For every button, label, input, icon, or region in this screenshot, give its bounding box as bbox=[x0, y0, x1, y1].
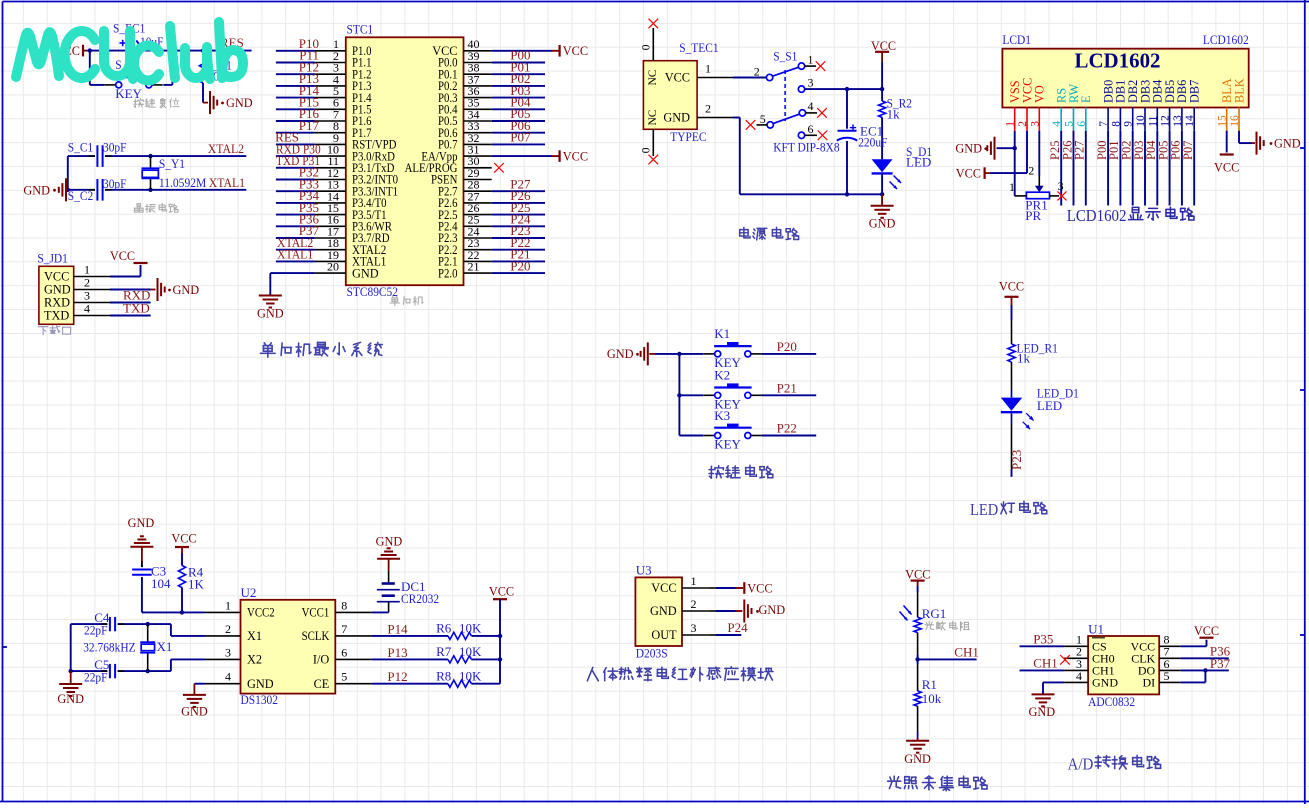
svg-text:CH1: CH1 bbox=[1033, 656, 1058, 671]
svg-text:DB7: DB7 bbox=[1188, 80, 1202, 103]
power port VCC (LCD) bbox=[956, 166, 990, 180]
wire + net label P14 (MCU pin 5) bbox=[276, 83, 320, 98]
svg-text:GND: GND bbox=[1092, 676, 1118, 690]
wire + net label XTAL1 (MCU pin 19) bbox=[276, 247, 315, 262]
wire + net label P07 (LCD) bbox=[1181, 131, 1195, 206]
svg-text:VCC: VCC bbox=[905, 567, 930, 581]
wire + net label P11 (MCU pin 2) bbox=[276, 48, 319, 63]
svg-text:CR2032: CR2032 bbox=[401, 591, 439, 606]
wire + net label P01 (MCU pin 38) bbox=[492, 59, 545, 74]
power port VCC (reset circuit) bbox=[55, 44, 88, 58]
switch S_S1 KFT DIP-8X8 bbox=[754, 49, 840, 155]
capacitor C4 22pF bbox=[84, 610, 124, 638]
junction bbox=[677, 352, 681, 398]
wire + net label P22 bbox=[762, 421, 817, 436]
wire + net label P32 (MCU pin 12) bbox=[276, 165, 319, 180]
capacitor S_C2 30pF bbox=[68, 176, 127, 203]
svg-text:15: 15 bbox=[1217, 115, 1229, 127]
wire + net label P04 (MCU pin 35) bbox=[492, 95, 545, 110]
wire + net label P22 (MCU pin 23) bbox=[492, 235, 545, 250]
wire U2 pin1 VCC2 net bbox=[142, 611, 205, 613]
svg-text:CH1: CH1 bbox=[954, 644, 979, 659]
resistor R7 10K bbox=[436, 644, 482, 663]
power port VCC (light sensor) bbox=[905, 567, 930, 586]
svg-text:GND: GND bbox=[23, 183, 50, 197]
wire + net label P16 (MCU pin 7) bbox=[276, 106, 320, 121]
overline on CS pin name (U1) bbox=[1092, 637, 1105, 639]
wire + power port VCC (LCD BLA pin15) bbox=[1214, 131, 1239, 175]
wire + ground (U1 pin4) bbox=[1028, 682, 1064, 719]
svg-text:U2: U2 bbox=[241, 585, 257, 600]
wire LCD pin1 VSS + junction bbox=[997, 131, 1017, 196]
wire key rail bbox=[655, 354, 704, 436]
svg-text:P07: P07 bbox=[510, 130, 531, 145]
svg-text:8: 8 bbox=[1110, 121, 1122, 127]
wire + net label RES (MCU pin 9) bbox=[275, 130, 314, 145]
svg-text:VCC: VCC bbox=[956, 166, 981, 180]
wire + power port VCC (MCU pin 31 EA) bbox=[492, 150, 588, 164]
svg-text:3: 3 bbox=[225, 645, 231, 659]
svg-text:GND: GND bbox=[663, 111, 690, 125]
svg-text:5: 5 bbox=[760, 112, 766, 126]
capacitor C5 22pF bbox=[84, 657, 124, 685]
svg-text:GND: GND bbox=[607, 347, 634, 361]
wire + net label P24 (MCU pin 25) bbox=[492, 212, 545, 227]
MCU pins and pin numbers bbox=[315, 37, 492, 280]
ground (reset circuit) bbox=[203, 91, 253, 114]
svg-text:GND: GND bbox=[376, 535, 403, 549]
junction bbox=[66, 154, 153, 192]
wire + net label P36 (MCU pin 16) bbox=[276, 212, 320, 227]
svg-text:4: 4 bbox=[808, 99, 814, 113]
wire + net label XTAL2 (MCU pin 18) bbox=[276, 235, 315, 250]
wire ground rail (power circuit) bbox=[733, 118, 882, 195]
wire R6 to VCC rail bbox=[471, 635, 500, 637]
svg-text:7: 7 bbox=[341, 622, 347, 636]
net label RES bbox=[220, 35, 244, 50]
wire + net label P37 (MCU pin 17) bbox=[276, 223, 320, 238]
svg-text:VCC2: VCC2 bbox=[247, 606, 275, 620]
caption 单片机 bbox=[390, 296, 423, 305]
svg-text:XTAL1: XTAL1 bbox=[209, 175, 245, 190]
wire resistor to LED bbox=[881, 117, 883, 159]
svg-text:RG1: RG1 bbox=[922, 606, 947, 621]
svg-text:OUT: OUT bbox=[651, 628, 677, 642]
svg-text:11: 11 bbox=[1147, 115, 1159, 126]
caption 电源电路 bbox=[740, 227, 799, 240]
wire + net label P05 (LCD) bbox=[1156, 131, 1170, 206]
svg-text:ADC0832: ADC0832 bbox=[1088, 694, 1135, 709]
wire + net label P12 bbox=[372, 669, 448, 684]
svg-text:R7: R7 bbox=[436, 644, 452, 659]
caption LCD1602显示电路 bbox=[1067, 206, 1194, 225]
svg-text:E: E bbox=[1079, 95, 1093, 103]
svg-text:CE: CE bbox=[314, 677, 330, 691]
svg-text:TYPEC: TYPEC bbox=[670, 129, 706, 144]
wire + net label P03 (LCD) bbox=[1132, 131, 1146, 206]
wire + net label P06 (MCU pin 33) bbox=[492, 118, 545, 133]
svg-text:DI: DI bbox=[1143, 676, 1156, 690]
svg-text:16: 16 bbox=[1229, 115, 1241, 127]
wire X1 bottom net (U2 pin3) bbox=[71, 624, 205, 671]
wire + net label P24 (U3 pin3) bbox=[708, 620, 748, 635]
svg-text:GND: GND bbox=[57, 692, 84, 706]
ground (power circuit) bbox=[869, 194, 896, 230]
wire + power port VCC (U3 pin1) bbox=[708, 581, 772, 595]
svg-text:VCC: VCC bbox=[665, 71, 690, 85]
caption LED灯电路 bbox=[970, 500, 1047, 519]
svg-text:PR: PR bbox=[1025, 208, 1041, 223]
svg-text:21: 21 bbox=[468, 260, 480, 274]
wire + net label P25 (LCD) bbox=[1048, 131, 1062, 206]
wire + net label P36 (U1 pin7) bbox=[1181, 644, 1231, 659]
svg-text:S_TEC1: S_TEC1 bbox=[679, 40, 718, 55]
wire + net label P17 (MCU pin 8) bbox=[276, 118, 320, 133]
svg-text:KFT DIP-8X8: KFT DIP-8X8 bbox=[773, 140, 839, 155]
svg-text:GND: GND bbox=[650, 604, 677, 618]
ground (above C3, inverted) bbox=[128, 516, 155, 564]
svg-text:RXD: RXD bbox=[44, 296, 70, 310]
module LCD1 LCD1602 body bbox=[1002, 32, 1248, 107]
net label XTAL1 bbox=[209, 175, 245, 190]
svg-text:LED: LED bbox=[1037, 398, 1062, 413]
wire S_S1 pin3 to VCC rail bbox=[805, 88, 882, 90]
svg-text:1K: 1K bbox=[188, 577, 205, 592]
wire XTAL2 net bbox=[68, 155, 247, 157]
svg-text:4: 4 bbox=[1076, 669, 1082, 683]
wire + net label P00 (MCU pin 39) bbox=[492, 48, 545, 63]
svg-text:LCD1602: LCD1602 bbox=[1203, 32, 1249, 47]
svg-text:3: 3 bbox=[691, 621, 697, 635]
resistor R8 10K bbox=[436, 668, 482, 687]
svg-text:LCD1: LCD1 bbox=[1002, 32, 1031, 47]
wire + net label P02 (LCD) bbox=[1120, 131, 1134, 206]
svg-text:P23: P23 bbox=[1009, 450, 1024, 470]
svg-text:TXD: TXD bbox=[44, 309, 69, 323]
svg-text:5: 5 bbox=[341, 670, 347, 684]
svg-text:1: 1 bbox=[225, 598, 231, 612]
junction bbox=[88, 48, 206, 52]
svg-text:6: 6 bbox=[1076, 121, 1088, 127]
svg-text:S_S1: S_S1 bbox=[773, 49, 797, 64]
wire + net label P13 (MCU pin 4) bbox=[276, 71, 319, 86]
net label XTAL2 bbox=[208, 141, 244, 156]
svg-text:GND: GND bbox=[181, 705, 208, 719]
no-ERC mark (MCU pin 30) bbox=[494, 163, 504, 173]
wire + net label P07 (MCU pin 32) bbox=[492, 130, 545, 145]
svg-text:VCC: VCC bbox=[999, 280, 1024, 294]
svg-text:2: 2 bbox=[225, 622, 231, 636]
svg-text:3: 3 bbox=[808, 76, 814, 90]
power port VCC (R4) bbox=[171, 532, 196, 554]
wire + net label P14 bbox=[372, 621, 448, 636]
svg-text:KEY: KEY bbox=[714, 437, 741, 452]
wire + net label P20 (MCU pin 21) bbox=[492, 258, 545, 273]
wire + net label P26 (LCD) bbox=[1060, 131, 1074, 206]
caption 人体热释电红外感应模块 bbox=[587, 667, 773, 681]
no-connect pin 0 (bottom of S_TEC1) bbox=[641, 129, 659, 164]
wire LCD pin2 VCC bbox=[990, 131, 1027, 173]
svg-text:GND: GND bbox=[904, 752, 931, 766]
svg-text:4: 4 bbox=[225, 670, 231, 684]
junction bbox=[845, 87, 885, 197]
chip U1 ADC0832 body bbox=[1064, 621, 1181, 709]
svg-text:10k: 10k bbox=[922, 691, 942, 706]
switch S_S2 KEY push button bbox=[105, 57, 163, 101]
svg-text:K2: K2 bbox=[714, 368, 730, 383]
svg-text:P22: P22 bbox=[777, 421, 797, 436]
svg-text:U1: U1 bbox=[1088, 621, 1104, 636]
svg-text:S_JD1: S_JD1 bbox=[37, 251, 68, 266]
wire + net label CH1 (U1 pin3) bbox=[1020, 656, 1065, 671]
wire + power port VCC (S_JD1 pin1) bbox=[110, 249, 148, 277]
svg-text:KEY: KEY bbox=[115, 86, 142, 101]
connector S_JD1 bbox=[37, 251, 110, 325]
switch K1 KEY push button bbox=[704, 326, 762, 370]
ground (below C5 rail) bbox=[57, 671, 84, 706]
svg-text:D203S: D203S bbox=[636, 645, 668, 660]
ground (above DC1, inverted) bbox=[376, 535, 403, 572]
wire + net label P10 (MCU pin 1) bbox=[276, 36, 319, 51]
svg-text:K3: K3 bbox=[714, 408, 730, 423]
svg-text:NC: NC bbox=[647, 109, 659, 125]
svg-text:2: 2 bbox=[705, 102, 711, 116]
svg-text:R1: R1 bbox=[922, 677, 937, 692]
svg-text:X2: X2 bbox=[247, 653, 262, 667]
svg-text:5: 5 bbox=[1164, 669, 1170, 683]
wire + net label RXD bbox=[110, 288, 151, 303]
wire VCC rail (pullups) bbox=[499, 599, 501, 684]
svg-text:P20: P20 bbox=[510, 258, 530, 273]
svg-text:VCC: VCC bbox=[747, 581, 772, 595]
svg-text:VCC: VCC bbox=[44, 270, 69, 284]
junction bbox=[498, 634, 502, 662]
module U3 D203S body bbox=[635, 563, 708, 661]
no-ERC marks (S_S1 unused pins) bbox=[746, 61, 828, 140]
wire XTAL1 net bbox=[68, 156, 247, 190]
svg-text:GND: GND bbox=[247, 677, 274, 691]
svg-text:P07: P07 bbox=[1181, 141, 1195, 160]
svg-text:R6: R6 bbox=[436, 621, 452, 636]
wire S_TEC1 pin1 to switch bbox=[733, 77, 766, 79]
wire R7 to VCC rail bbox=[471, 658, 500, 660]
svg-text:S_C1: S_C1 bbox=[68, 140, 93, 155]
svg-text:XTAL2: XTAL2 bbox=[208, 141, 244, 156]
svg-text:I/O: I/O bbox=[313, 653, 330, 667]
svg-text:32.768kHZ: 32.768kHZ bbox=[83, 639, 135, 654]
wire + net label P12 (MCU pin 3) bbox=[276, 59, 319, 74]
LCD pins, pin names and numbers bbox=[1005, 78, 1247, 131]
wire VCC to LED_R1 bbox=[1011, 305, 1013, 344]
resistor LED_R1 1k bbox=[1008, 341, 1058, 366]
svg-text:TXD: TXD bbox=[123, 301, 150, 316]
MCU STC1 STC89C52 body bbox=[346, 22, 464, 300]
svg-text:S_C2: S_C2 bbox=[68, 188, 93, 203]
svg-text:1: 1 bbox=[808, 53, 814, 67]
svg-text:1: 1 bbox=[691, 574, 697, 588]
no-connect pin 0 (top of S_TEC1) bbox=[641, 19, 659, 61]
svg-text:VCC: VCC bbox=[651, 581, 676, 595]
wire LED to ground rail bbox=[881, 173, 883, 194]
wire + net label P06 (LCD) bbox=[1169, 131, 1183, 206]
svg-text:GND: GND bbox=[173, 283, 200, 297]
wire + net label TXD P31 (MCU pin 11) bbox=[276, 153, 320, 168]
caption 光敏电阻 bbox=[925, 621, 969, 630]
wire + ground (LCD BLK pin16) bbox=[1239, 131, 1301, 155]
svg-text:P13: P13 bbox=[387, 645, 407, 660]
potentiometer PR1 PR bbox=[1009, 164, 1064, 223]
wire LED_R1 to LED_D1 bbox=[1011, 362, 1013, 398]
svg-text:STC89C52: STC89C52 bbox=[347, 284, 399, 299]
LED S_D1 bbox=[872, 144, 933, 189]
wire + ground (U3 pin2) bbox=[708, 600, 785, 623]
wire + net label P35 (MCU pin 15) bbox=[276, 200, 319, 215]
svg-text:10: 10 bbox=[1135, 115, 1147, 127]
capacitor C3 104 bbox=[132, 561, 171, 612]
wire + net label P21 bbox=[762, 380, 817, 395]
svg-text:K1: K1 bbox=[714, 326, 730, 341]
svg-text:A/D: A/D bbox=[1068, 754, 1094, 773]
svg-text:30pF: 30pF bbox=[103, 176, 127, 191]
svg-text:P17: P17 bbox=[299, 118, 320, 133]
svg-text:VCC: VCC bbox=[563, 44, 588, 58]
svg-text:12: 12 bbox=[1160, 115, 1172, 127]
photoresistor RG1 bbox=[900, 606, 947, 633]
svg-text:GND: GND bbox=[955, 142, 982, 156]
svg-text:P14: P14 bbox=[387, 621, 408, 636]
svg-text:LED: LED bbox=[970, 500, 998, 519]
svg-text:P27: P27 bbox=[1073, 141, 1087, 160]
svg-text:220uF: 220uF bbox=[858, 135, 887, 150]
svg-text:DS1302: DS1302 bbox=[241, 692, 279, 707]
svg-text:2: 2 bbox=[754, 65, 760, 79]
wire + net label P01 (LCD) bbox=[1107, 131, 1121, 206]
no-ERC mark (U1 pin2 CH0) bbox=[1060, 655, 1070, 665]
svg-text:3: 3 bbox=[84, 289, 90, 303]
svg-text:VCC: VCC bbox=[110, 249, 135, 263]
wire + net label P27 (MCU pin 28) bbox=[492, 176, 545, 191]
caption A/D转换电路 bbox=[1068, 754, 1161, 773]
wire VCC to RG1 bbox=[917, 586, 919, 617]
wire + net label P33 (MCU pin 13) bbox=[276, 176, 319, 191]
svg-text:1: 1 bbox=[84, 263, 90, 277]
svg-text:1k: 1k bbox=[887, 106, 901, 121]
svg-text:VCC: VCC bbox=[563, 150, 588, 164]
svg-text:2: 2 bbox=[1017, 121, 1029, 127]
switch K2 KEY push button bbox=[704, 368, 762, 412]
svg-text:1: 1 bbox=[1005, 121, 1017, 127]
svg-text:5: 5 bbox=[1064, 121, 1076, 127]
battery DC1 CR2032 bbox=[377, 572, 439, 613]
wire RES net horizontal bbox=[88, 50, 252, 52]
svg-text:4: 4 bbox=[84, 302, 90, 316]
svg-text:2: 2 bbox=[691, 597, 697, 611]
wire U1 pin5 DI to P37 net bbox=[1181, 670, 1206, 682]
svg-text:4: 4 bbox=[1051, 121, 1063, 127]
wire VCC to resistor bbox=[881, 62, 883, 101]
logo MCUclub bbox=[16, 22, 243, 81]
svg-text:R8: R8 bbox=[436, 668, 451, 683]
wire + power port VCC (U1 pin8) bbox=[1181, 624, 1219, 646]
svg-text:BLK: BLK bbox=[1232, 78, 1246, 103]
svg-text:11.0592M: 11.0592M bbox=[159, 175, 207, 190]
svg-text:STC1: STC1 bbox=[347, 22, 374, 37]
wire + net label P20 bbox=[762, 339, 817, 354]
svg-text:LCD1602: LCD1602 bbox=[1067, 206, 1127, 225]
resistor R1 10k bbox=[914, 677, 942, 706]
caption 晶振电路 bbox=[134, 203, 178, 212]
power port VCC (DS1302 pullups) bbox=[489, 585, 514, 600]
svg-text:104: 104 bbox=[151, 576, 171, 591]
svg-text:1: 1 bbox=[1009, 180, 1015, 194]
svg-text:X1: X1 bbox=[247, 629, 262, 643]
svg-text:3: 3 bbox=[1058, 179, 1064, 193]
wire + ground (U2 pin4) bbox=[181, 684, 208, 719]
svg-text:8: 8 bbox=[341, 598, 347, 612]
switch K3 KEY push button bbox=[704, 408, 762, 452]
svg-text:20: 20 bbox=[327, 260, 339, 274]
wire + net label P00 (LCD) bbox=[1095, 131, 1109, 206]
svg-text:2: 2 bbox=[84, 276, 90, 290]
wire X1 top net (U2 pin2) bbox=[71, 624, 205, 636]
svg-text:VCC: VCC bbox=[1214, 161, 1239, 175]
resistor S_R2 1k bbox=[879, 96, 913, 122]
svg-text:GND: GND bbox=[869, 217, 896, 231]
crystal S_Y1 11.0592M bbox=[142, 156, 207, 190]
power port VCC (power circuit) bbox=[871, 39, 896, 62]
crystal X1 32.768kHZ bbox=[83, 624, 172, 671]
ground (LCD VSS) bbox=[955, 137, 994, 160]
svg-text:LED: LED bbox=[906, 155, 931, 170]
wire + net label P05 (MCU pin 34) bbox=[492, 106, 545, 121]
wire + net label P13 bbox=[372, 645, 448, 660]
svg-text:22pF: 22pF bbox=[84, 623, 108, 638]
svg-text:0: 0 bbox=[641, 44, 653, 50]
svg-text:10K: 10K bbox=[459, 621, 482, 636]
wire + net label P02 (MCU pin 37) bbox=[492, 71, 545, 86]
wire + net label P23 bbox=[1009, 413, 1024, 476]
svg-text:U3: U3 bbox=[636, 563, 652, 578]
svg-text:1: 1 bbox=[705, 62, 711, 76]
wire + net label RXD P30 (MCU pin 10) bbox=[276, 141, 321, 156]
svg-text:P12: P12 bbox=[387, 669, 407, 684]
svg-text:30pF: 30pF bbox=[103, 140, 127, 155]
wire R8 to VCC rail bbox=[471, 683, 500, 685]
wire + net label P23 (MCU pin 24) bbox=[492, 223, 545, 238]
svg-text:14: 14 bbox=[1184, 115, 1196, 127]
capacitor S_EC1 10uF polarized bbox=[113, 21, 164, 62]
svg-text:P37: P37 bbox=[1210, 656, 1231, 671]
LED LED_D1 bbox=[1001, 386, 1079, 430]
wire + ground (R1 bottom) bbox=[904, 706, 931, 766]
svg-text:P35: P35 bbox=[1033, 632, 1053, 647]
wire + net label P21 (MCU pin 22) bbox=[492, 247, 545, 262]
svg-text:13: 13 bbox=[1172, 115, 1184, 127]
power port VCC (LED circuit) bbox=[999, 280, 1024, 305]
svg-text:GND: GND bbox=[226, 96, 253, 110]
wire + net label P27 (LCD) bbox=[1073, 131, 1087, 206]
svg-text:GND: GND bbox=[352, 266, 379, 280]
caption 光照采集电路 bbox=[888, 776, 987, 791]
svg-text:9: 9 bbox=[1123, 121, 1135, 127]
wire + power port VCC (MCU pin 40) bbox=[492, 44, 588, 58]
svg-text:VO: VO bbox=[1033, 85, 1047, 103]
wire + ground (S_JD1 pin2) bbox=[110, 278, 199, 301]
svg-text:7: 7 bbox=[1098, 121, 1110, 127]
resistor S_R1 10k bbox=[199, 51, 232, 103]
svg-text:0: 0 bbox=[641, 147, 653, 153]
capacitor S_C1 30pF bbox=[68, 140, 127, 167]
